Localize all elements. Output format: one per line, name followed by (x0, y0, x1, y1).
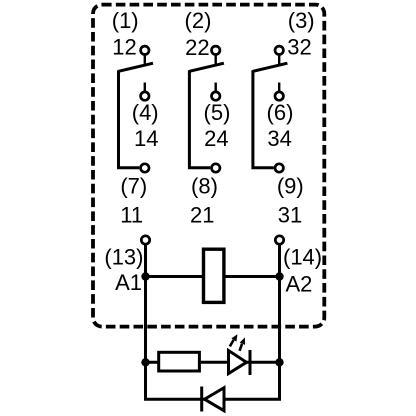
svg-text:A2: A2 (286, 271, 313, 296)
svg-text:14: 14 (134, 126, 158, 151)
svg-text:21: 21 (190, 202, 214, 227)
svg-text:(2): (2) (185, 8, 212, 33)
svg-text:11: 11 (120, 202, 143, 227)
svg-text:(5): (5) (204, 100, 231, 125)
svg-text:34: 34 (267, 126, 291, 151)
svg-text:(8): (8) (191, 174, 218, 199)
svg-text:(13): (13) (104, 244, 143, 269)
svg-text:(1): (1) (112, 8, 139, 33)
svg-text:22: 22 (185, 35, 209, 60)
svg-text:(7): (7) (120, 174, 147, 199)
svg-text:(3): (3) (288, 8, 315, 33)
svg-text:12: 12 (112, 34, 136, 59)
svg-text:A1: A1 (115, 270, 142, 295)
svg-text:24: 24 (204, 126, 228, 151)
svg-text:(4): (4) (132, 100, 159, 125)
svg-text:(6): (6) (267, 100, 294, 125)
svg-text:32: 32 (287, 34, 311, 59)
svg-text:(9): (9) (277, 174, 304, 199)
svg-text:31: 31 (278, 202, 302, 227)
svg-text:(14): (14) (283, 244, 322, 269)
